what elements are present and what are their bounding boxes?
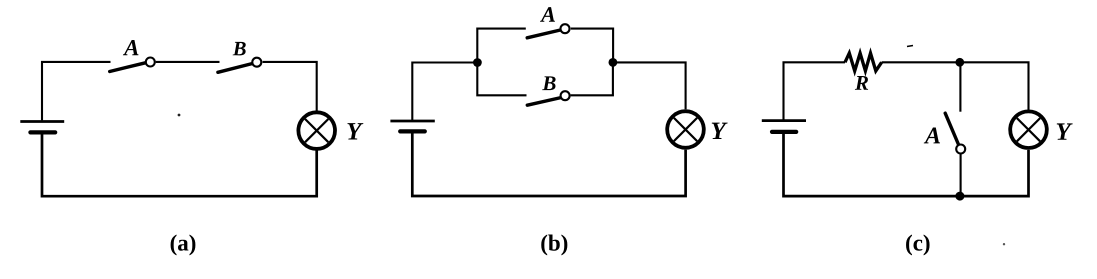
wire: top branch right side (b) xyxy=(571,29,613,64)
junction dot left (b) xyxy=(473,58,482,67)
switch B blade (a) xyxy=(218,64,252,73)
label A (c) xyxy=(924,128,940,144)
label A (b) xyxy=(540,7,555,22)
wire: circuit b battery to left junction (b) xyxy=(412,63,477,122)
wire: circuit a left rail lower + bottom + right rail lower xyxy=(42,133,317,196)
switch A contact circle (a) xyxy=(146,58,155,67)
wire: circuit c top-left + left rail upper xyxy=(784,62,846,119)
speck xyxy=(1003,243,1005,245)
wire: switch B to top-right corner + right rail upper (a) xyxy=(263,62,317,111)
lamp Y (c) xyxy=(1010,111,1047,148)
switch B contact circle (a) xyxy=(252,58,261,67)
switch A contact circle (b) xyxy=(561,24,570,33)
wire: bottom branch right side (b) xyxy=(571,62,613,96)
wire: top branch left side (b) xyxy=(477,29,526,64)
switch A blade (a) xyxy=(110,63,146,72)
wire: switch branch upper segment (c) xyxy=(959,62,961,111)
junction dot bottom (c) xyxy=(955,192,964,201)
wire: between switch A and switch B (a) xyxy=(156,61,220,63)
label B (a) xyxy=(233,42,246,55)
switch B contact circle (b) xyxy=(561,91,570,100)
label Y (b) xyxy=(712,123,728,139)
battery (b) long plate xyxy=(390,120,434,123)
speck xyxy=(178,114,181,117)
label Y (c) xyxy=(1057,123,1073,139)
switch A blade (b) xyxy=(527,30,561,38)
wire: circuit b left rail lower + bottom + right rail lower xyxy=(412,133,685,197)
label R (c) xyxy=(855,76,868,90)
wire: switch branch lower segment (c) xyxy=(960,154,962,197)
battery (a) long plate xyxy=(20,120,64,123)
caption (c) xyxy=(906,235,929,256)
wire: right junction to lamp (b) xyxy=(613,62,686,109)
speck xyxy=(907,46,913,47)
lamp Y (b) xyxy=(667,111,704,148)
label B (b) xyxy=(542,76,555,90)
caption (a) xyxy=(171,235,196,256)
battery (c) long plate xyxy=(762,119,806,122)
lamp Y (a) xyxy=(298,112,335,149)
battery (b) short plate xyxy=(400,129,425,133)
switch A blade (c) xyxy=(945,113,959,145)
label Y (a) xyxy=(347,123,363,139)
wire: circuit a top-left + left rail upper xyxy=(42,62,111,121)
wire: resistor to junction to top-right corner + right rail upper (c) xyxy=(882,62,1029,110)
switch B blade (b) xyxy=(527,97,562,105)
resistor R xyxy=(845,53,882,71)
switch A contact circle (c) xyxy=(956,145,965,154)
wire: bottom branch left side (b) xyxy=(477,62,526,96)
caption (b) xyxy=(541,235,567,256)
junction dot top (c) xyxy=(955,58,964,67)
battery (a) short plate xyxy=(30,130,55,134)
junction dot right (b) xyxy=(609,58,618,67)
wire: circuit c left rail lower + bottom + right rail lower xyxy=(784,133,1029,196)
battery (c) short plate xyxy=(772,130,796,134)
label A (a) xyxy=(123,40,139,55)
